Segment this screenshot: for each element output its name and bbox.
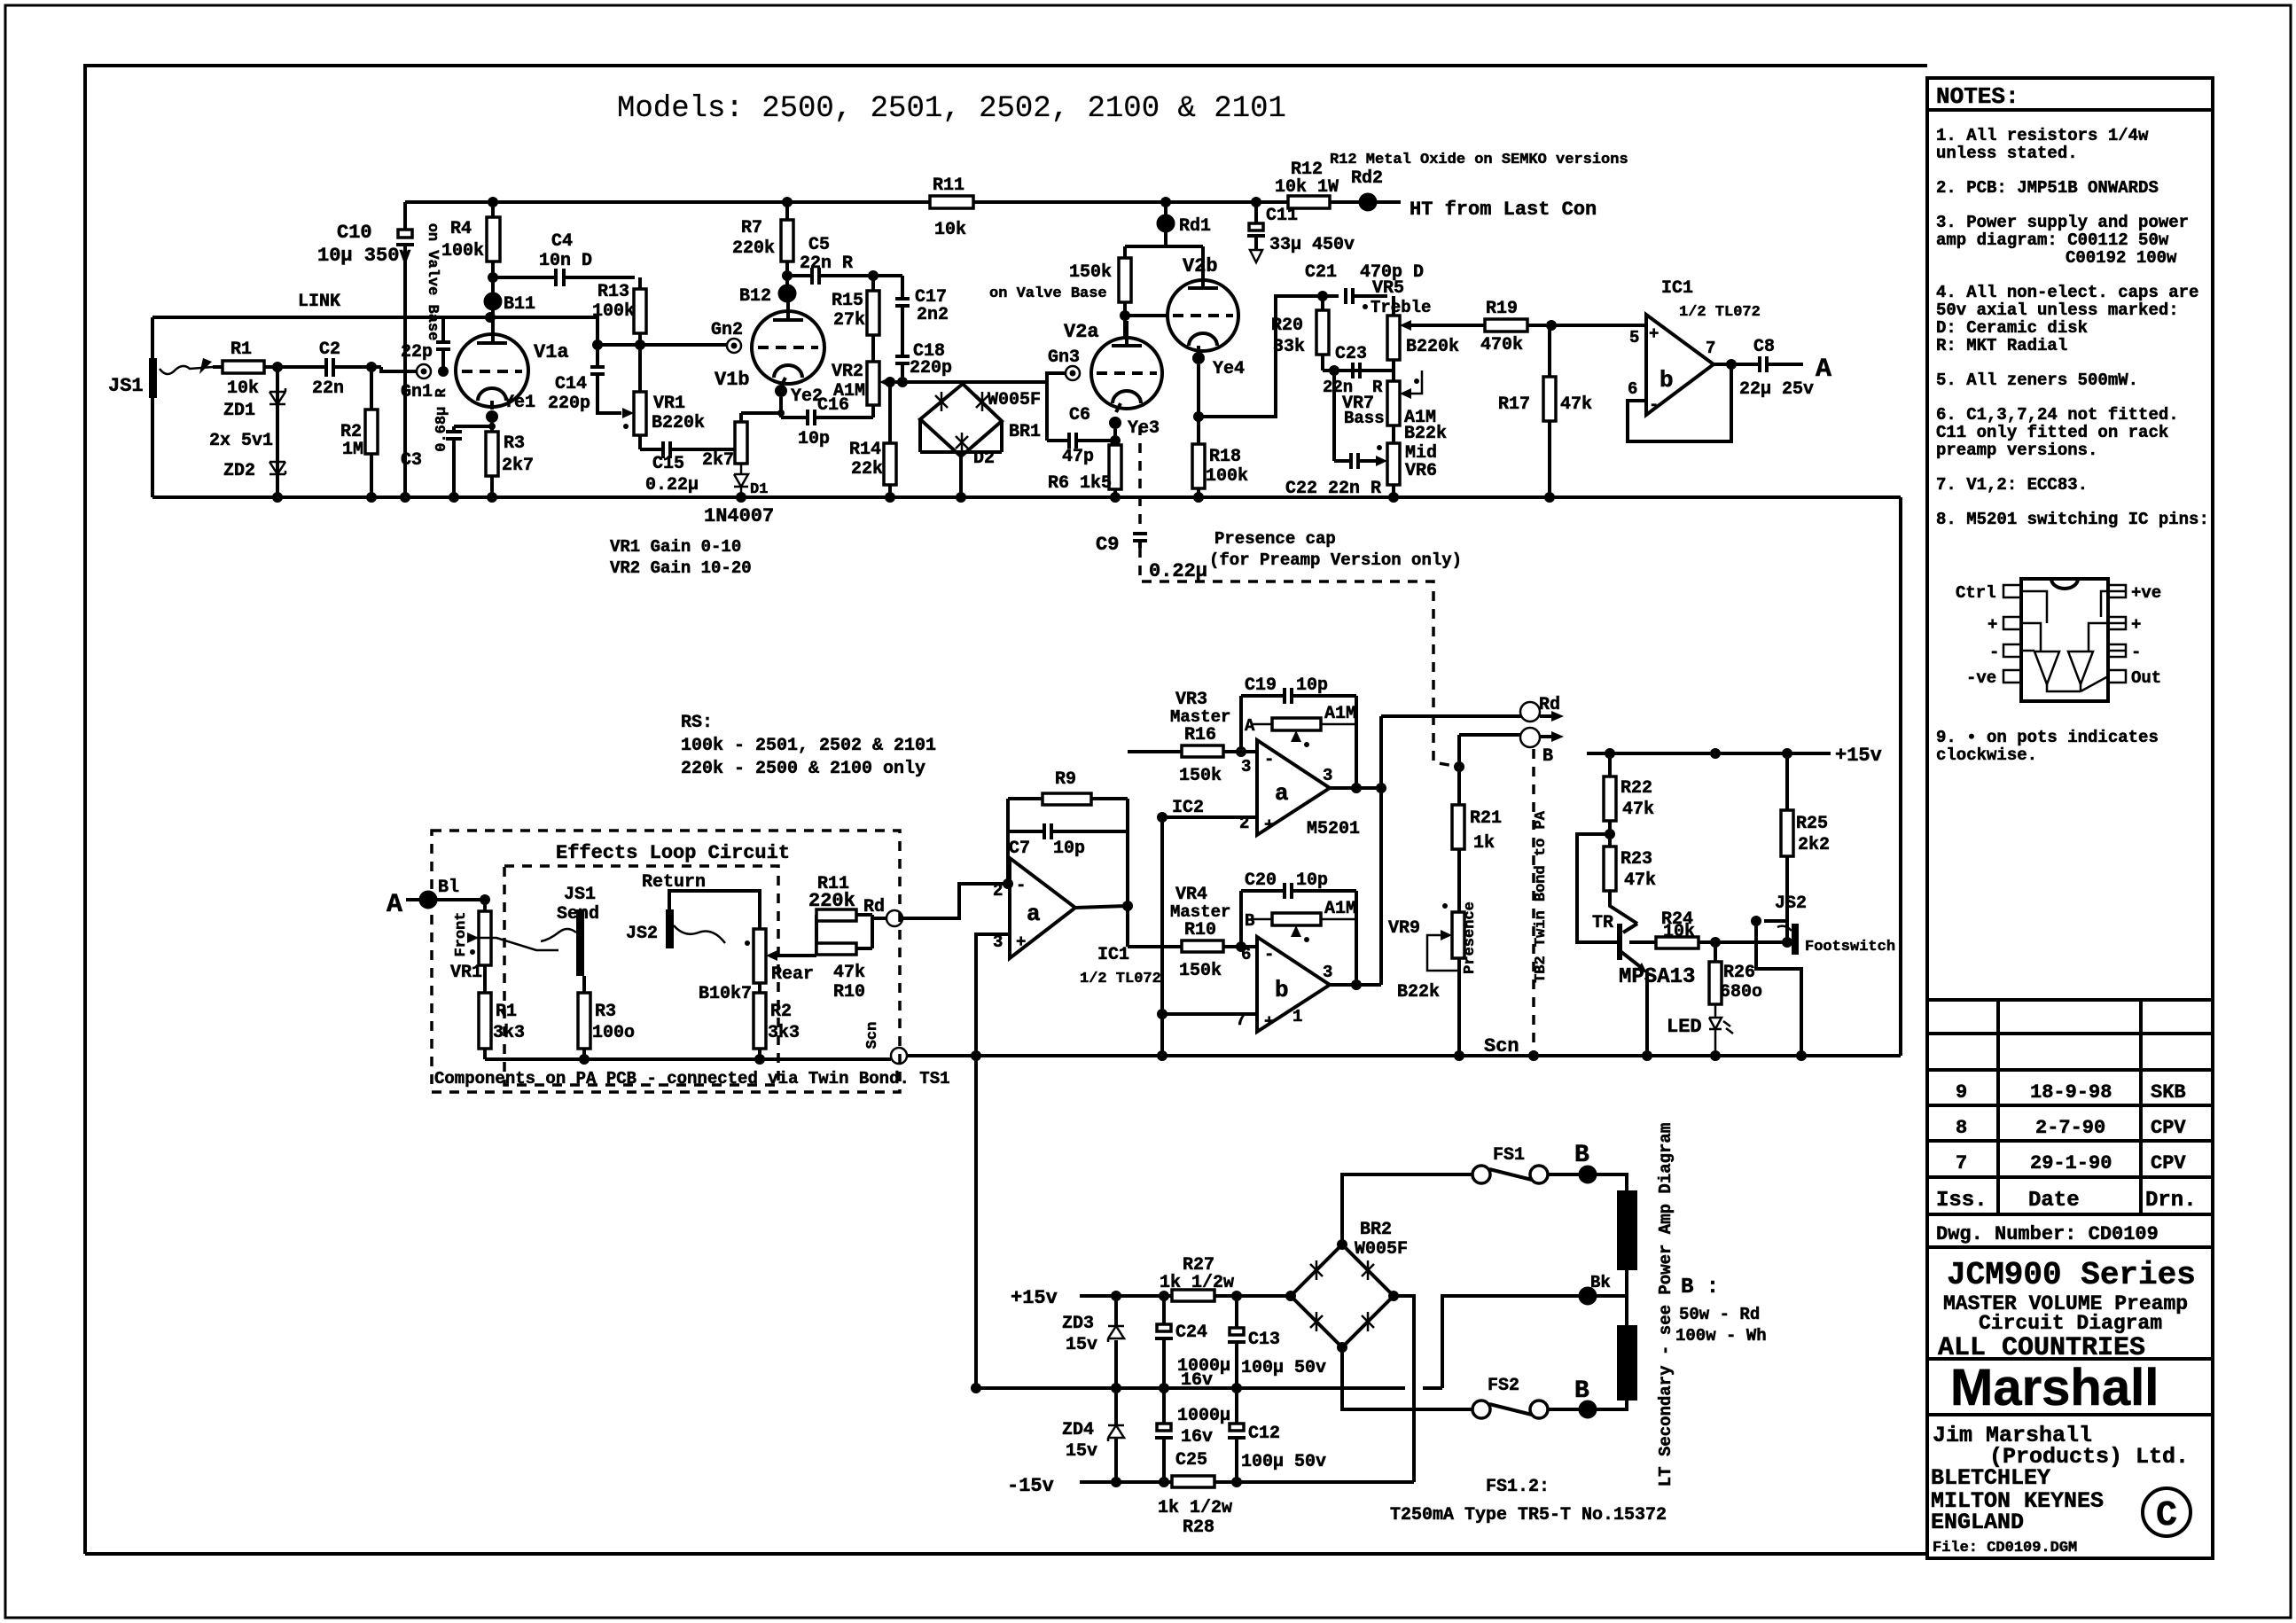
svg-text:8: 8 <box>1956 1117 1967 1139</box>
capacitor C6 47p <box>1047 382 1115 449</box>
resistor R15 27k <box>867 291 879 335</box>
svg-text:3k3: 3k3 <box>768 1023 800 1043</box>
svg-text:680o: 680o <box>1720 982 1762 1003</box>
svg-text:VR2: VR2 <box>832 362 863 382</box>
svg-text:R11: R11 <box>933 176 964 196</box>
jack JS1 <box>149 358 157 398</box>
NOTES box <box>1927 78 2213 110</box>
svg-text:Bass: Bass <box>1344 409 1385 428</box>
svg-text:R: MKT Radial: R: MKT Radial <box>1936 336 2067 355</box>
svg-text:B220k: B220k <box>1406 337 1459 357</box>
wire +15v mid rail <box>1587 752 1831 755</box>
svg-text:10n D: 10n D <box>539 251 592 271</box>
svg-text:R2: R2 <box>770 1002 792 1022</box>
svg-text:V2a: V2a <box>1064 321 1099 343</box>
svg-text:+: + <box>1016 932 1026 952</box>
svg-text:R15: R15 <box>832 291 863 311</box>
svg-text:1000µ: 1000µ <box>1177 1406 1230 1426</box>
capacitor C9 0.22u presence (dashed) <box>1138 425 1142 530</box>
svg-text:C11 only fitted on rack: C11 only fitted on rack <box>1936 423 2168 442</box>
svg-text:C15: C15 <box>652 454 684 474</box>
svg-text:V2b: V2b <box>1183 255 1218 277</box>
svg-text:22n: 22n <box>312 378 344 399</box>
svg-text:50w - Rd: 50w - Rd <box>1679 1305 1760 1324</box>
resistor R23 47k <box>1604 847 1616 891</box>
svg-text:B10k7: B10k7 <box>699 984 752 1004</box>
jack JS2 Return <box>666 909 674 948</box>
wire cathode to C16 <box>741 397 781 417</box>
svg-text:b: b <box>1660 367 1674 394</box>
svg-text:10p: 10p <box>1053 839 1085 859</box>
svg-text:IC1: IC1 <box>1097 945 1129 965</box>
svg-text:TB2 Twin Bond to PA: TB2 Twin Bond to PA <box>1533 810 1550 983</box>
resistor R22 47k <box>1604 776 1616 821</box>
svg-text:-: - <box>1649 395 1659 415</box>
zener ZD2 <box>269 462 285 474</box>
svg-text:Rear: Rear <box>771 964 814 985</box>
op-amp IC1b <box>1646 315 1714 415</box>
svg-text:15v: 15v <box>1066 1335 1097 1355</box>
svg-text:C25: C25 <box>1175 1450 1207 1471</box>
svg-text:Footswitch: Footswitch <box>1805 939 1895 956</box>
svg-text:0.22µ: 0.22µ <box>645 475 699 495</box>
resistor R17 47k <box>1543 377 1556 421</box>
svg-text:-: - <box>1016 876 1026 895</box>
svg-text:VR1 Gain 0-10: VR1 Gain 0-10 <box>610 537 741 557</box>
svg-text:7: 7 <box>1706 339 1715 358</box>
wire IC2 outputs bus <box>1330 716 1381 985</box>
svg-text:100k: 100k <box>441 241 484 261</box>
capacitor 22p grid <box>436 317 450 371</box>
transformer LT secondary winding lower <box>1617 1325 1637 1401</box>
node Ye4 <box>1192 352 1205 364</box>
capacitor C4 10n D <box>493 269 635 286</box>
svg-text:+15v: +15v <box>1835 745 1882 767</box>
svg-text:VR6: VR6 <box>1405 461 1437 481</box>
svg-text:+: + <box>1264 1012 1274 1032</box>
svg-text:M5201: M5201 <box>1307 819 1360 839</box>
svg-text:Drn.: Drn. <box>2145 1189 2197 1213</box>
svg-text:A: A <box>1816 355 1831 385</box>
svg-text:Iss.: Iss. <box>1936 1189 1988 1213</box>
svg-text:1M: 1M <box>342 440 363 460</box>
svg-text:CPV: CPV <box>2151 1117 2186 1139</box>
node B bottom <box>1580 1401 1596 1417</box>
svg-text:Dwg. Number: CD0109: Dwg. Number: CD0109 <box>1936 1223 2159 1245</box>
svg-text:R19: R19 <box>1486 299 1518 319</box>
effects loop outer dashed box <box>432 831 900 1092</box>
capacitor C5 22n R <box>787 268 902 285</box>
svg-text:JS1: JS1 <box>108 375 144 397</box>
svg-text:-ve: -ve <box>1966 668 1996 688</box>
svg-text:on Valve Base: on Valve Base <box>424 223 441 341</box>
resistor R1 3k3 <box>479 993 491 1049</box>
capacitor C22 22n R <box>1334 453 1380 469</box>
svg-text:B12: B12 <box>739 286 771 307</box>
svg-text:Send: Send <box>557 904 599 925</box>
svg-text:B22k: B22k <box>1404 424 1447 444</box>
svg-text:IC2: IC2 <box>1172 798 1204 818</box>
svg-text:+: + <box>1649 324 1659 344</box>
svg-text:A1M: A1M <box>1324 899 1356 919</box>
wire Rd to IC1a <box>902 884 1010 918</box>
svg-text:W005F: W005F <box>988 390 1041 410</box>
svg-text:on Valve Base: on Valve Base <box>989 285 1107 302</box>
svg-text:47k: 47k <box>1560 394 1592 415</box>
svg-text:Master: Master <box>1170 902 1230 922</box>
capacitor C16 10p <box>781 405 873 425</box>
svg-text:16v: 16v <box>1181 1427 1213 1447</box>
svg-text:Ye3: Ye3 <box>1128 418 1160 439</box>
svg-text:-: - <box>1264 945 1274 964</box>
resistor R25 2k2 <box>1781 810 1793 856</box>
svg-text:47p: 47p <box>1062 447 1094 467</box>
svg-text:C00192 100w: C00192 100w <box>2066 248 2177 268</box>
svg-text:LT Secondary - see Power Amp D: LT Secondary - see Power Amp Diagram <box>1656 1123 1675 1486</box>
node Rd2 <box>1360 194 1376 210</box>
wire C23 branch vertical <box>1332 371 1336 461</box>
svg-text:R6 1k5: R6 1k5 <box>1048 473 1112 494</box>
resistor R3 2k7 <box>486 432 498 476</box>
revision table <box>1927 1000 2213 1214</box>
wire tone node <box>1323 369 1394 372</box>
svg-text:R17: R17 <box>1498 394 1530 415</box>
triode V1b <box>752 311 824 384</box>
node Ye2 <box>775 385 787 397</box>
svg-text:220k: 220k <box>808 890 855 912</box>
svg-text:Circuit Diagram: Circuit Diagram <box>1979 1312 2162 1335</box>
svg-text:6. C1,3,7,24 not fitted.: 6. C1,3,7,24 not fitted. <box>1936 405 2179 425</box>
svg-text:B :: B : <box>1681 1276 1719 1299</box>
capacitor C10 10u 350v <box>403 202 407 497</box>
wire A to VR1 <box>436 900 485 911</box>
resistor R3 100o <box>578 993 590 1049</box>
wire IC1b feedback <box>1628 364 1731 441</box>
wire B connector <box>1459 735 1553 737</box>
bridge rectifier BR1 W005F <box>920 384 1002 456</box>
node Gn2 <box>727 339 741 353</box>
svg-text:1. All resistors 1/4w: 1. All resistors 1/4w <box>1936 126 2149 145</box>
resistor R2 1M <box>365 410 378 454</box>
node Rd loop <box>886 910 902 926</box>
wire +15v supply rail <box>1080 1294 1291 1298</box>
svg-text:33µ 450v: 33µ 450v <box>1269 235 1355 255</box>
title box JCM900 <box>1927 1247 2213 1359</box>
op-amp IC1a <box>1010 858 1075 958</box>
resistor R10 47k loop <box>816 943 856 955</box>
potentiometer VR1 B220k <box>634 392 646 435</box>
svg-text:Gn2: Gn2 <box>711 320 743 340</box>
svg-text:Effects Loop Circuit: Effects Loop Circuit <box>556 842 790 864</box>
zener ZD4 15v <box>1114 1388 1118 1482</box>
svg-text:IC1: IC1 <box>1661 278 1693 299</box>
svg-text:R7: R7 <box>741 218 762 238</box>
svg-text:C23: C23 <box>1335 344 1367 364</box>
svg-text:+: + <box>2131 615 2141 635</box>
zener ZD1 <box>269 388 285 404</box>
svg-text:BLETCHLEY: BLETCHLEY <box>1931 1465 2050 1491</box>
wire cathode follower out <box>1197 364 1200 444</box>
svg-text:LED: LED <box>1667 1016 1702 1038</box>
svg-text:W005F: W005F <box>1355 1239 1408 1260</box>
potentiometer VR1 front <box>479 911 491 965</box>
svg-text:150k: 150k <box>1179 766 1222 786</box>
svg-text:R1: R1 <box>230 339 252 360</box>
bridge rectifier BR2 W005F <box>1291 1245 1394 1347</box>
svg-text:220k: 220k <box>732 238 775 259</box>
wire base feed <box>1577 834 1620 942</box>
svg-text:220k - 2500 & 2100 only: 220k - 2500 & 2100 only <box>681 759 925 779</box>
svg-text:50v axial unless marked:: 50v axial unless marked: <box>1936 300 2179 320</box>
wire right edge drop <box>1899 497 1902 1056</box>
svg-text:C10: C10 <box>337 222 372 244</box>
svg-text:Bl: Bl <box>438 878 459 898</box>
svg-text:JS2: JS2 <box>1775 893 1807 914</box>
svg-text:B22k: B22k <box>1397 982 1440 1003</box>
svg-text:R14: R14 <box>849 440 881 460</box>
capacitor C18 220p <box>895 356 910 382</box>
node B top <box>1580 1167 1596 1182</box>
svg-text:HT from Last Con: HT from Last Con <box>1410 199 1597 221</box>
svg-text:ZD4: ZD4 <box>1062 1420 1094 1440</box>
svg-text:C19: C19 <box>1245 675 1277 696</box>
svg-text:R1: R1 <box>496 1002 517 1022</box>
wire zener branch <box>276 367 279 497</box>
svg-text:VR2 Gain 10-20: VR2 Gain 10-20 <box>610 558 752 578</box>
svg-text:SKB: SKB <box>2151 1081 2186 1104</box>
svg-text:b: b <box>1275 977 1289 1003</box>
svg-text:150k: 150k <box>1179 961 1222 981</box>
node B12 <box>779 285 795 301</box>
svg-text:2x 5v1: 2x 5v1 <box>209 431 273 451</box>
svg-text:JS1: JS1 <box>564 885 596 905</box>
svg-text:R3: R3 <box>504 433 525 454</box>
capacitor C11 33u 450v <box>1254 202 1258 250</box>
svg-text:Presence cap: Presence cap <box>1214 529 1336 549</box>
svg-text:0.22µ: 0.22µ <box>1149 560 1207 582</box>
resistor 2k7 grid <box>735 422 747 464</box>
svg-text:100k: 100k <box>592 301 635 322</box>
svg-text:-: - <box>1989 643 1999 662</box>
svg-text:B: B <box>1574 1377 1589 1405</box>
svg-text:27k: 27k <box>833 310 865 331</box>
svg-text:2k7: 2k7 <box>502 456 534 476</box>
resistor R18 100k <box>1192 444 1205 488</box>
wire return loop <box>669 891 760 929</box>
resistor R11 10k <box>930 196 973 208</box>
op-amp IC2a M5201 <box>1257 740 1330 835</box>
node Scn left <box>891 1048 907 1064</box>
resistor R12 10k 1W <box>1288 196 1330 208</box>
Marshall logo box <box>1927 1359 2213 1415</box>
potentiometer VR9 Presence B22k <box>1452 912 1464 958</box>
svg-text:C3: C3 <box>401 450 422 471</box>
svg-text:3: 3 <box>1241 757 1251 776</box>
svg-text:C5: C5 <box>808 235 830 255</box>
resistor R2 3k3 <box>754 993 766 1049</box>
svg-text:5: 5 <box>1629 328 1639 347</box>
svg-text:Out: Out <box>2131 668 2161 688</box>
wire to V2b grid <box>1125 314 1168 317</box>
svg-text:1: 1 <box>1292 1007 1302 1026</box>
svg-text:33k: 33k <box>1273 337 1305 357</box>
svg-text:VR1: VR1 <box>450 963 482 983</box>
IC M5201 pin diagram <box>2021 579 2108 701</box>
capacitor C7 10p <box>1008 823 1128 839</box>
triode V2a <box>1091 338 1162 409</box>
resistor R24 10k <box>1656 937 1699 948</box>
node Gn3 <box>1066 366 1080 380</box>
svg-text:TR: TR <box>1592 913 1613 933</box>
transistor TR MPSA13 <box>1617 924 1622 960</box>
resistor R19 470k <box>1485 319 1527 332</box>
wire feedback IC1a <box>1006 799 1010 884</box>
wire anode loop <box>490 317 597 345</box>
svg-text:C6: C6 <box>1069 405 1090 425</box>
resistor R21 1k <box>1452 805 1464 849</box>
svg-text:7. V1,2: ECC83.: 7. V1,2: ECC83. <box>1936 475 2088 495</box>
svg-text:C24: C24 <box>1175 1323 1207 1343</box>
svg-text:150k: 150k <box>1069 262 1112 283</box>
svg-text:10k: 10k <box>1663 922 1695 942</box>
svg-text:-: - <box>1264 750 1274 769</box>
svg-text:+ve: +ve <box>2131 583 2161 603</box>
svg-text:A1M: A1M <box>1324 704 1356 724</box>
svg-text:R13: R13 <box>597 282 629 302</box>
resistor R14 22k <box>884 443 896 485</box>
svg-text:amp diagram: C00112 50w: amp diagram: C00112 50w <box>1936 230 2169 250</box>
svg-text:C14: C14 <box>555 374 587 394</box>
svg-text:V1b: V1b <box>715 369 750 391</box>
resistor R6 1k5 <box>1109 445 1121 489</box>
svg-text:Date: Date <box>2028 1189 2080 1213</box>
svg-text:1k 1/2w: 1k 1/2w <box>1158 1498 1232 1518</box>
svg-text:C: C <box>2156 1496 2177 1536</box>
svg-text:-15v: -15v <box>1007 1475 1054 1497</box>
capacitor C21 470p D <box>1346 288 1387 304</box>
svg-text:8. M5201 switching IC pins:: 8. M5201 switching IC pins: <box>1936 510 2209 529</box>
svg-text:4. All non-elect. caps are: 4. All non-elect. caps are <box>1936 283 2198 302</box>
svg-text:0.68µ R: 0.68µ R <box>433 388 450 452</box>
potentiometer VR6 Mid B22k <box>1387 443 1400 485</box>
svg-text:D: Ceramic disk: D: Ceramic disk <box>1936 318 2088 338</box>
wire mid to V2a grid <box>895 373 1066 382</box>
svg-text:RS:: RS: <box>681 713 713 733</box>
svg-text:Rd: Rd <box>1539 695 1560 715</box>
capacitor C23 22n R <box>1353 363 1360 378</box>
dwg number box <box>1927 1214 2213 1247</box>
wire: LINK line <box>152 316 490 319</box>
triode V2b <box>1168 280 1238 351</box>
resistor R10 150k <box>1182 940 1223 952</box>
svg-text:Components on PA PCB - connect: Components on PA PCB - connected via Twi… <box>434 1069 950 1089</box>
svg-text:BR1: BR1 <box>1009 422 1041 442</box>
svg-text:1/2 TL072: 1/2 TL072 <box>1679 304 1761 321</box>
svg-text:unless stated.: unless stated. <box>1936 144 2078 163</box>
svg-text:D1: D1 <box>750 481 768 498</box>
transformer LT secondary winding upper <box>1617 1190 1637 1270</box>
svg-text:9: 9 <box>1956 1081 1967 1104</box>
svg-text:R22: R22 <box>1620 778 1652 799</box>
svg-text:Ctrl: Ctrl <box>1956 583 1996 603</box>
wire: input box left vertical <box>151 317 154 497</box>
potentiometer VR2 A1M <box>867 362 879 405</box>
jack JS1 Send <box>576 909 584 976</box>
potentiometer B10k7 rear <box>754 929 766 983</box>
wire IC1a pin3 down <box>976 934 1010 1056</box>
node Gn1 <box>417 364 431 378</box>
svg-text:10k: 10k <box>227 378 259 399</box>
svg-text:Models: 2500, 2501, 2502, 2100: Models: 2500, 2501, 2502, 2100 & 2101 <box>617 92 1286 126</box>
resistor 150k on Valve Base <box>1119 258 1131 302</box>
svg-text:VR9: VR9 <box>1388 918 1420 939</box>
svg-text:Bk: Bk <box>1590 1273 1611 1292</box>
svg-text:6: 6 <box>1628 379 1637 399</box>
svg-text:R3: R3 <box>595 1002 616 1022</box>
drawing area border <box>85 66 1927 1554</box>
dashed TB2 twin bond line <box>1532 749 1535 1056</box>
svg-text:B220k: B220k <box>652 413 705 433</box>
svg-text:B: B <box>1574 1142 1589 1169</box>
resistor R9 <box>1043 793 1091 805</box>
svg-text:10k 1W: 10k 1W <box>1275 177 1339 198</box>
svg-text:+15v: +15v <box>1011 1287 1058 1309</box>
svg-text:2-7-90: 2-7-90 <box>2035 1117 2105 1139</box>
svg-text:2n2: 2n2 <box>917 305 949 325</box>
capacitor C15 0.22u <box>640 435 735 458</box>
svg-text:T250mA Type TR5-T No.15372: T250mA Type TR5-T No.15372 <box>1390 1505 1667 1525</box>
svg-text:29-1-90: 29-1-90 <box>2030 1152 2112 1174</box>
wire IC1a output <box>1075 906 1128 908</box>
resistor R7 220k <box>781 220 793 261</box>
svg-text:Ye4: Ye4 <box>1213 359 1245 379</box>
svg-text:Presence: Presence <box>1462 901 1479 974</box>
fuse FS1 <box>1342 1174 1472 1245</box>
svg-text:R16: R16 <box>1184 725 1216 745</box>
capacitor C17 2n2 <box>895 276 910 356</box>
svg-text:(for Preamp Version only): (for Preamp Version only) <box>1209 550 1462 570</box>
svg-text:Ye1: Ye1 <box>504 393 535 413</box>
svg-text:C2: C2 <box>319 339 340 360</box>
svg-text:C21: C21 <box>1305 262 1337 283</box>
potentiometer VR5 Treble B220k <box>1387 316 1400 360</box>
svg-text:10k: 10k <box>934 220 966 240</box>
effects loop inner dashed box <box>504 866 778 1085</box>
svg-text:JS2: JS2 <box>626 924 658 944</box>
svg-text:Gn1: Gn1 <box>401 382 433 402</box>
diode D1 1N4007 <box>734 464 748 497</box>
svg-text:10µ 350v: 10µ 350v <box>317 245 411 267</box>
svg-text:100k: 100k <box>1206 466 1248 487</box>
svg-text:R10: R10 <box>1184 920 1216 940</box>
connector Rd/B twin bond <box>1520 702 1540 722</box>
label HT from Last Con <box>1376 200 1401 204</box>
svg-text:a: a <box>1275 780 1289 807</box>
fuse FS2 <box>1342 1347 1472 1409</box>
copyright symbol <box>2143 1488 2191 1536</box>
node Ye3 <box>1109 417 1121 429</box>
svg-text:C7: C7 <box>1009 839 1030 859</box>
svg-text:C8: C8 <box>1753 337 1775 357</box>
svg-text:22µ 25v: 22µ 25v <box>1739 379 1814 400</box>
wire -15v supply rail <box>1080 1480 1414 1484</box>
capacitor C25 1000u 16v <box>1162 1388 1166 1482</box>
svg-text:VR1: VR1 <box>653 394 685 414</box>
svg-text:100o: 100o <box>592 1023 635 1043</box>
wire IC2 ground bus <box>1160 817 1164 1056</box>
svg-text:7: 7 <box>1956 1152 1967 1174</box>
svg-text:File: CD0109.DGM: File: CD0109.DGM <box>1933 1540 2077 1557</box>
